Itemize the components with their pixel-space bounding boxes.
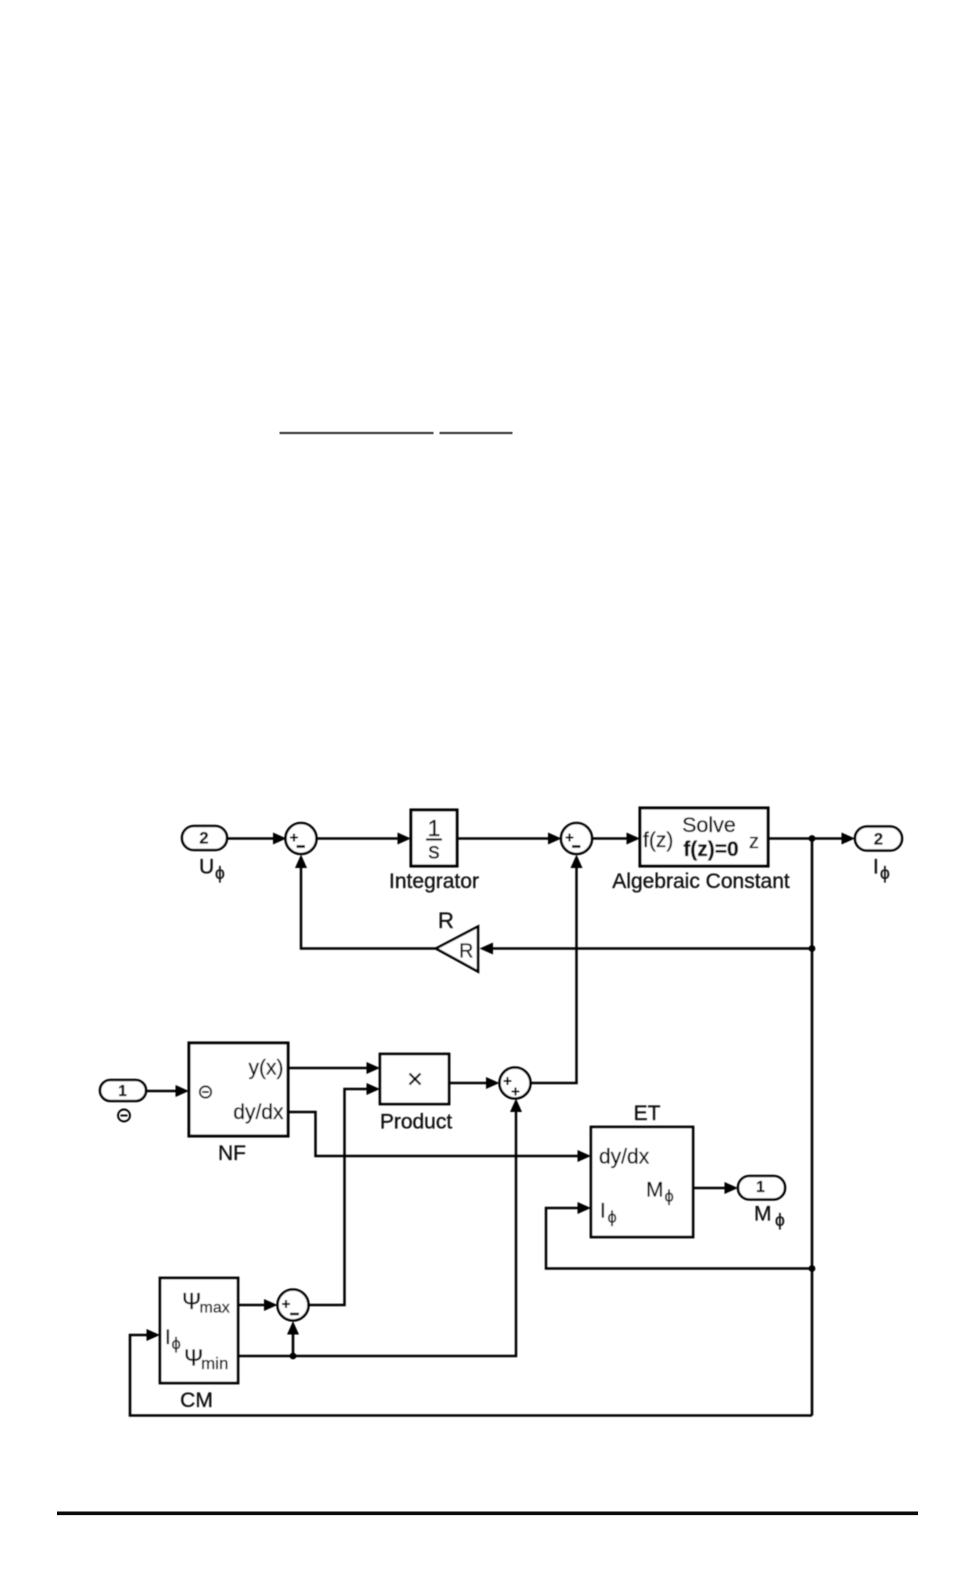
svg-text:NF: NF [218,1142,246,1165]
label U_phi [199,856,225,884]
wire I_phi feedback to ET lower input [546,1202,812,1269]
gain R triangle [436,927,478,972]
svg-text:M: M [754,1203,772,1226]
svg-text:f(z): f(z) [643,829,673,852]
inport 2 (U phi) [182,826,227,850]
svg-text:ϕ: ϕ [665,1188,674,1206]
svg-text:ϕ: ϕ [775,1210,785,1230]
sum S3 (+ +) [500,1068,531,1099]
svg-text:1: 1 [756,1179,765,1196]
svg-text:min: min [201,1354,228,1373]
outport 1 (M phi) [738,1176,785,1200]
wire sum S4 to Product lower input [309,1083,381,1305]
label Integrator [389,870,479,893]
svg-text:Product: Product [380,1111,453,1134]
node junction at (812,1268) [809,1265,816,1272]
node junction at (812,948) [809,945,816,952]
wire CM psi_max to sum S4 [238,1299,278,1311]
svg-text:ET: ET [634,1102,661,1125]
label Theta (below inport 1) [118,1110,130,1122]
label ET [634,1102,661,1125]
label M_phi [754,1203,785,1231]
svg-text:ϕ: ϕ [215,863,225,883]
svg-text:I: I [873,856,879,879]
label R (above gain) [438,908,454,933]
algebraic constraint block [640,808,768,866]
wire sum S3 up to sum S2 (bottom) [531,855,583,1084]
label I_phi [873,856,890,884]
node junction at (812,838) [809,835,816,842]
svg-text:2: 2 [199,830,208,848]
wire psi_min branch up to sum S4 (bottom) [287,1321,299,1356]
svg-text:2: 2 [874,831,883,849]
svg-text:Algebraic Constant: Algebraic Constant [612,870,790,893]
svg-text:I: I [165,1326,171,1349]
svg-text:U: U [199,856,214,879]
wire inport2 to sum S1 [227,833,287,845]
label Product [380,1111,453,1134]
wire bottom loop (right vertical to CM input) [130,1329,812,1416]
sum S4 (+ -) [278,1290,309,1321]
wire S2 to Algebraic block [592,833,640,845]
wire right vertical to gain R [480,943,813,955]
svg-text:ϕ: ϕ [608,1209,617,1227]
wire psi_min line up to sum S3 (bottom) [238,1099,522,1357]
node junction at (293,1356) [290,1353,297,1360]
wire main vertical feedback (right side) [811,839,814,1416]
svg-text:M: M [646,1179,664,1202]
wire S1 to Integrator [317,833,412,845]
inport 1 (Theta) [100,1080,146,1101]
block Product [380,1054,449,1104]
svg-text:Integrator: Integrator [389,870,479,893]
block CM [160,1278,238,1383]
svg-text:s: s [428,838,440,864]
wire Algebraic to outport 2 [768,833,855,845]
sum S2 (+ -) [561,823,592,854]
outport 2 (I phi) [855,827,902,851]
wire inport1 to NF [146,1085,189,1097]
svg-text:ϕ: ϕ [880,863,890,883]
svg-text:Solve: Solve [682,813,736,837]
label NF [218,1142,246,1165]
svg-text:ϕ: ϕ [172,1335,181,1353]
wire gain R to sum S1 (bottom) [295,855,436,949]
svg-text:max: max [200,1300,230,1317]
svg-text:1: 1 [118,1083,127,1100]
svg-text:f(z)=0: f(z)=0 [683,838,738,861]
equation fraction bar 2 [440,432,513,434]
svg-text:CM: CM [180,1389,213,1412]
wire NF y(x) to Product [288,1062,380,1074]
block ET [591,1127,693,1237]
svg-text:z: z [749,831,759,853]
svg-text:R: R [438,908,454,933]
label CM [180,1389,213,1412]
wire Integrator to sum S2 [457,833,562,845]
svg-text:dy/dx: dy/dx [233,1101,284,1124]
footer rule [57,1512,918,1516]
svg-text:Ψ: Ψ [182,1288,201,1314]
equation fraction bar 1 [280,432,434,434]
svg-text:I: I [600,1200,606,1223]
wire Product to sum S3 [449,1077,500,1089]
block NF [189,1043,288,1136]
integrator block 1/s [411,810,457,866]
wire NF dy/dx to ET [288,1112,591,1162]
svg-text:dy/dx: dy/dx [599,1146,650,1169]
svg-text:y(x): y(x) [249,1057,284,1080]
wire ET to outport 1 [693,1182,738,1194]
label Algebraic Constant [612,870,790,893]
svg-text:R: R [459,941,473,963]
sum S1 (+ -) [286,823,317,854]
